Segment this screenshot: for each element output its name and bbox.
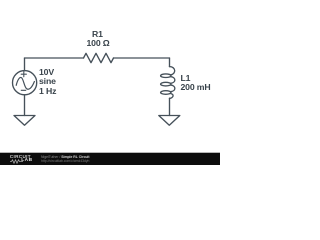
voltage source V1 circle [13, 71, 37, 95]
ground right [159, 116, 180, 126]
label L1 [181, 74, 191, 83]
inductor L1 coil [170, 67, 175, 75]
wire source bottom lead [24, 95, 26, 116]
ground left [14, 116, 35, 126]
footer attribution line 2 [41, 159, 89, 163]
resistor R1 [84, 53, 114, 62]
wire inductor bottom lead [169, 98, 171, 115]
footer attribution line 1 [41, 155, 90, 159]
wire top-left vertical from source to top rail [24, 58, 26, 71]
wire top rail left segment [25, 57, 84, 59]
V1 plus sign [21, 72, 26, 77]
wire inductor top lead [169, 58, 171, 67]
label R1 [92, 30, 103, 39]
footer bar [0, 152, 220, 153]
wire top rail right segment [114, 57, 170, 59]
label 200 mH [181, 83, 211, 92]
CircuitLab logo [10, 155, 31, 159]
V1 minus sign [21, 89, 26, 91]
V1 sine wave [16, 77, 34, 89]
label 100 Ω [87, 39, 110, 48]
label 10V sine 1 Hz [39, 68, 56, 96]
